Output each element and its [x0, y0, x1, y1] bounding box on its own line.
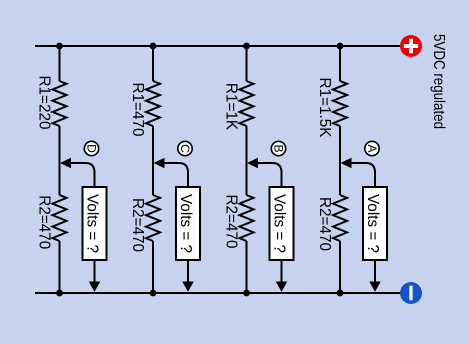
node: branch 3 junction on +5V rail: [243, 43, 250, 50]
node: branch 1 junction on +5V rail: [56, 43, 63, 50]
node label circle D: [84, 141, 98, 155]
arrowhead: voltmeter reference arrow to 0V rail (branch 4): [369, 282, 380, 292]
wire: voltmeter box branch 1 to 0V rail: [94, 260, 96, 283]
resistor R2 of branch 3 (R2=470): [240, 195, 254, 241]
resistor R1 of branch 2 (R1=470): [146, 81, 160, 126]
wire: branch 4 mid node between R1 and R2: [339, 126, 341, 195]
wire: branch 3 mid node between R1 and R2: [246, 126, 248, 195]
arrowhead: probe arrow into mid node of branch 2: [154, 158, 165, 169]
wire: branch 2 from +5V rail to R1: [152, 46, 154, 81]
wire: probe lead from mid node of branch 4 to voltmeter box: [349, 163, 375, 187]
svg-text:Volts = ?: Volts = ?: [177, 194, 194, 253]
node label circle A: [365, 141, 379, 155]
svg-text:C: C: [178, 144, 192, 153]
wire: voltmeter box branch 4 to 0V rail: [374, 260, 376, 283]
wire: branch 1 mid node between R1 and R2: [59, 126, 61, 195]
node: branch 1 junction on 0V rail: [56, 290, 63, 297]
arrowhead: probe arrow into mid node of branch 1: [60, 158, 71, 169]
svg-text:Volts = ?: Volts = ?: [364, 194, 381, 253]
svg-text:R2=470: R2=470: [316, 197, 333, 251]
wire: branch 3 from R2 to 0V rail: [246, 241, 248, 293]
+5V supply rail (top wire): [35, 45, 401, 47]
node: branch 3 junction on 0V rail: [243, 290, 250, 297]
resistor R1 of branch 1 (R1=220): [53, 81, 67, 126]
wire: probe lead from mid node of branch 3 to voltmeter box: [256, 163, 282, 187]
positive supply terminal (+): [400, 35, 422, 57]
voltmeter box branch 3: [270, 187, 294, 260]
svg-text:R1=1.5K: R1=1.5K: [316, 78, 333, 139]
node: branch 2 junction on +5V rail: [150, 43, 157, 50]
svg-text:R2=470: R2=470: [36, 195, 53, 249]
wire: voltmeter box branch 2 to 0V rail: [187, 260, 189, 283]
wire: branch 4 from R2 to 0V rail: [339, 241, 341, 293]
arrowhead: voltmeter reference arrow to 0V rail (branch 2): [182, 282, 193, 292]
node: branch 4 junction on +5V rail: [337, 43, 344, 50]
svg-text:R2=470: R2=470: [223, 194, 240, 248]
svg-text:R1=220: R1=220: [36, 75, 53, 129]
node label circle C: [178, 141, 192, 155]
0V return rail (bottom wire): [35, 292, 401, 294]
minus sign (rotated): [409, 286, 412, 301]
voltmeter box branch 1: [83, 187, 107, 260]
wire: branch 2 mid node between R1 and R2: [152, 126, 154, 195]
plus sign: [404, 39, 418, 53]
resistor R2 of branch 1 (R2=470): [53, 195, 67, 241]
wire: branch 1 from +5V rail to R1: [59, 46, 61, 81]
voltmeter box branch 4: [363, 187, 387, 260]
wire: branch 2 from R2 to 0V rail: [152, 241, 154, 293]
resistor R2 of branch 2 (R2=470): [146, 195, 160, 241]
arrowhead: voltmeter reference arrow to 0V rail (branch 3): [276, 282, 287, 292]
svg-text:Volts = ?: Volts = ?: [271, 194, 288, 253]
wire: probe lead from mid node of branch 1 to voltmeter box: [69, 163, 95, 187]
wire: branch 4 from +5V rail to R1: [339, 46, 341, 81]
resistor R2 of branch 4 (R2=470): [333, 195, 347, 241]
arrowhead: voltmeter reference arrow to 0V rail (branch 1): [89, 282, 100, 292]
node: branch 2 junction on 0V rail: [150, 290, 157, 297]
wire: branch 3 from +5V rail to R1: [246, 46, 248, 81]
negative supply terminal (-): [400, 282, 422, 304]
node: branch 4 junction on 0V rail: [337, 290, 344, 297]
svg-text:D: D: [85, 144, 99, 153]
node label circle B: [271, 141, 285, 155]
arrowhead: probe arrow into mid node of branch 4: [341, 158, 352, 169]
wire: branch 1 from R2 to 0V rail: [59, 241, 61, 293]
svg-text:R1=1K: R1=1K: [223, 83, 240, 131]
svg-text:B: B: [272, 144, 286, 152]
arrowhead: probe arrow into mid node of branch 3: [247, 158, 258, 169]
svg-text:R1=470: R1=470: [129, 82, 146, 136]
svg-text:5VDC regulated: 5VDC regulated: [430, 34, 447, 129]
wire: voltmeter box branch 3 to 0V rail: [281, 260, 283, 283]
resistor R1 of branch 4 (R1=1.5K): [333, 81, 347, 126]
resistor R1 of branch 3 (R1=1K): [240, 81, 254, 126]
svg-text:A: A: [365, 144, 379, 152]
voltmeter box branch 2: [176, 187, 200, 260]
svg-text:R2=470: R2=470: [129, 198, 146, 252]
svg-text:Volts = ?: Volts = ?: [84, 194, 101, 253]
wire: probe lead from mid node of branch 2 to voltmeter box: [162, 163, 188, 187]
